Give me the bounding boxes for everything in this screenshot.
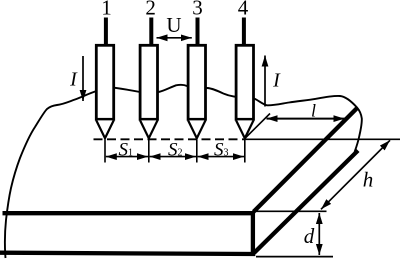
S3 dimension arrow	[198, 156, 244, 158]
current arrow up (right)	[264, 56, 266, 107]
slab front face top edge	[3, 211, 256, 215]
slab front face bottom edge	[0, 253, 255, 254]
svg-text:I: I	[272, 70, 281, 92]
probe 3 lead wire	[196, 18, 200, 46]
probe 2 tip	[140, 120, 157, 138]
probe 4 body	[236, 45, 253, 119]
current arrow down (left)	[82, 56, 84, 101]
probe 4 lead wire	[242, 18, 246, 46]
slab front face right edge	[251, 211, 255, 256]
svg-text:I: I	[69, 69, 78, 91]
h dimension arrow	[321, 140, 390, 209]
probe 3 body	[188, 45, 205, 119]
extension line below tip 2	[148, 140, 150, 163]
l dimension arrow	[267, 118, 345, 120]
slab right face bottom oblique edge	[254, 151, 358, 254]
probe 2 lead wire	[149, 18, 153, 46]
svg-text:h: h	[363, 168, 374, 192]
slab top face right oblique edge	[254, 108, 357, 212]
svg-text:d: d	[304, 224, 315, 248]
probe 4 tip	[236, 120, 253, 138]
surface reference line (dashed part through probe tips)	[94, 138, 246, 140]
extension line below tip 3	[196, 140, 198, 163]
d dimension arrow	[318, 213, 320, 255]
svg-text:4: 4	[238, 0, 249, 20]
surface reference line (solid right part)	[245, 138, 400, 140]
svg-text:U: U	[166, 13, 181, 37]
svg-text:2: 2	[145, 0, 156, 20]
probe 3 tip	[188, 120, 205, 138]
S2 dimension arrow	[150, 156, 196, 158]
wire: wavy broken-sample outline	[5, 85, 362, 258]
U double arrow	[157, 37, 192, 39]
probe 2 body	[140, 45, 157, 119]
extension line at slab bottom right corner (for d)	[256, 256, 333, 258]
extension line below tip 1	[104, 140, 106, 163]
svg-text:l: l	[311, 101, 316, 121]
probe 1 tip	[96, 120, 113, 138]
probe 1 lead wire	[104, 18, 108, 46]
l leader line from tip 4	[245, 114, 270, 139]
svg-text:1: 1	[101, 0, 112, 20]
svg-text:3: 3	[192, 0, 203, 20]
extension line below tip 4	[244, 140, 246, 163]
S1 dimension arrow	[106, 156, 148, 158]
extension line at slab top right corner (for h and d)	[256, 210, 327, 212]
probe 1 body	[96, 45, 113, 119]
